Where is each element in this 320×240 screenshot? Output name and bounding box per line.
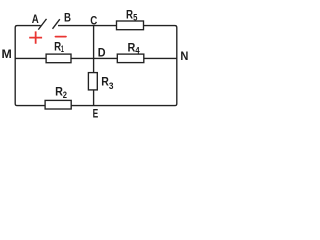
resistor R2 (box on bottom wire): [45, 100, 71, 109]
svg-text:A: A: [32, 12, 39, 26]
resistor R3 (vertical box between D and E): [88, 73, 97, 90]
value label R2: [55, 84, 67, 100]
resistor R5 (box on top wire): [117, 21, 144, 30]
wire: outer loop M-A ... B-C-N-E-M with gap between terminals A and B: [15, 26, 177, 106]
value label R3: [101, 74, 113, 91]
svg-text:5: 5: [133, 13, 137, 23]
value label R5: [126, 8, 137, 23]
svg-text:B: B: [64, 11, 71, 25]
value label R1: [54, 39, 64, 54]
terminal slash at B (broken wire end): [53, 19, 60, 29]
svg-text:1: 1: [61, 44, 64, 54]
wire: vertical branch from node C through D and R3 to node E: [93, 26, 95, 106]
svg-text:R: R: [126, 8, 133, 22]
terminal slash at A (broken wire end): [38, 19, 46, 30]
svg-text:E: E: [93, 107, 99, 121]
svg-text:3: 3: [109, 81, 114, 91]
polarity mark + (red) at terminal A: [29, 31, 42, 43]
resistor R4 (box on middle branch right): [117, 54, 144, 63]
svg-text:R: R: [128, 40, 136, 54]
svg-text:N: N: [180, 49, 188, 63]
polarity mark - (red) at terminal B: [56, 36, 66, 38]
svg-text:4: 4: [135, 46, 139, 56]
svg-text:M: M: [2, 47, 12, 61]
svg-text:2: 2: [63, 90, 67, 100]
svg-text:C: C: [90, 13, 97, 27]
resistor R1 (box on middle branch): [46, 54, 71, 63]
wire: middle branch from node M through R1, D, R4 to node N: [15, 57, 177, 59]
value label R4: [128, 40, 140, 55]
svg-text:D: D: [98, 45, 106, 59]
svg-text:R: R: [101, 74, 109, 88]
